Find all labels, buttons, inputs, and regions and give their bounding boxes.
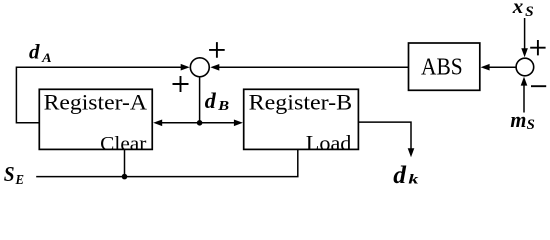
wire d_A branch down into Register-A xyxy=(16,67,40,123)
label x_S xyxy=(512,0,534,20)
wire ABS output to S1 xyxy=(210,64,408,71)
wire junction up to Register-A bottom xyxy=(124,149,126,176)
label d_k xyxy=(393,160,418,189)
junction dot on S_E wire xyxy=(122,174,128,180)
svg-text:Load: Load xyxy=(306,131,352,155)
wire S1 output down to node d_B xyxy=(199,77,201,124)
wire m_S up into S2 xyxy=(521,77,528,113)
wire S2 output to ABS xyxy=(481,64,516,71)
label d_A xyxy=(29,40,52,66)
block Register-A xyxy=(39,89,152,155)
summing junction S1 xyxy=(190,58,209,77)
svg-text:S: S xyxy=(4,162,15,186)
svg-text:x: x xyxy=(512,0,524,18)
label m_S xyxy=(510,107,534,133)
svg-text:ABS: ABS xyxy=(421,54,463,81)
summing junction S2 xyxy=(516,58,534,76)
svg-text:S: S xyxy=(525,4,534,20)
svg-text:E: E xyxy=(15,173,24,188)
plus sign (right of x_S wire) xyxy=(530,40,545,55)
block ABS xyxy=(409,43,480,90)
plus sign (upper right of S1) xyxy=(209,42,225,58)
svg-text:k: k xyxy=(408,173,418,188)
plus sign (lower left of S1) xyxy=(173,76,189,92)
svg-text:S: S xyxy=(527,117,535,133)
label d_B xyxy=(205,88,229,113)
svg-text:d: d xyxy=(29,40,40,64)
svg-text:B: B xyxy=(217,98,229,113)
node d_B junction dot xyxy=(197,120,203,126)
wire bidirectional arrow Register-A to Register-B xyxy=(153,120,243,127)
svg-text:d: d xyxy=(205,88,217,113)
wire S_E to Register-B bottom xyxy=(36,149,298,176)
wire d_A to summing junction S1 xyxy=(16,64,189,71)
svg-text:A: A xyxy=(41,51,52,65)
wire x_S down into S2 xyxy=(521,18,528,57)
label S_E xyxy=(4,162,24,188)
svg-text:Clear: Clear xyxy=(100,133,146,155)
svg-text:Register-A: Register-A xyxy=(44,89,148,114)
block Register-B xyxy=(244,89,359,155)
minus sign (right of m_S wire) xyxy=(531,85,546,87)
svg-text:d: d xyxy=(393,160,407,189)
svg-text:Register-B: Register-B xyxy=(249,89,353,114)
wire Register-B output to d_k xyxy=(358,122,414,157)
